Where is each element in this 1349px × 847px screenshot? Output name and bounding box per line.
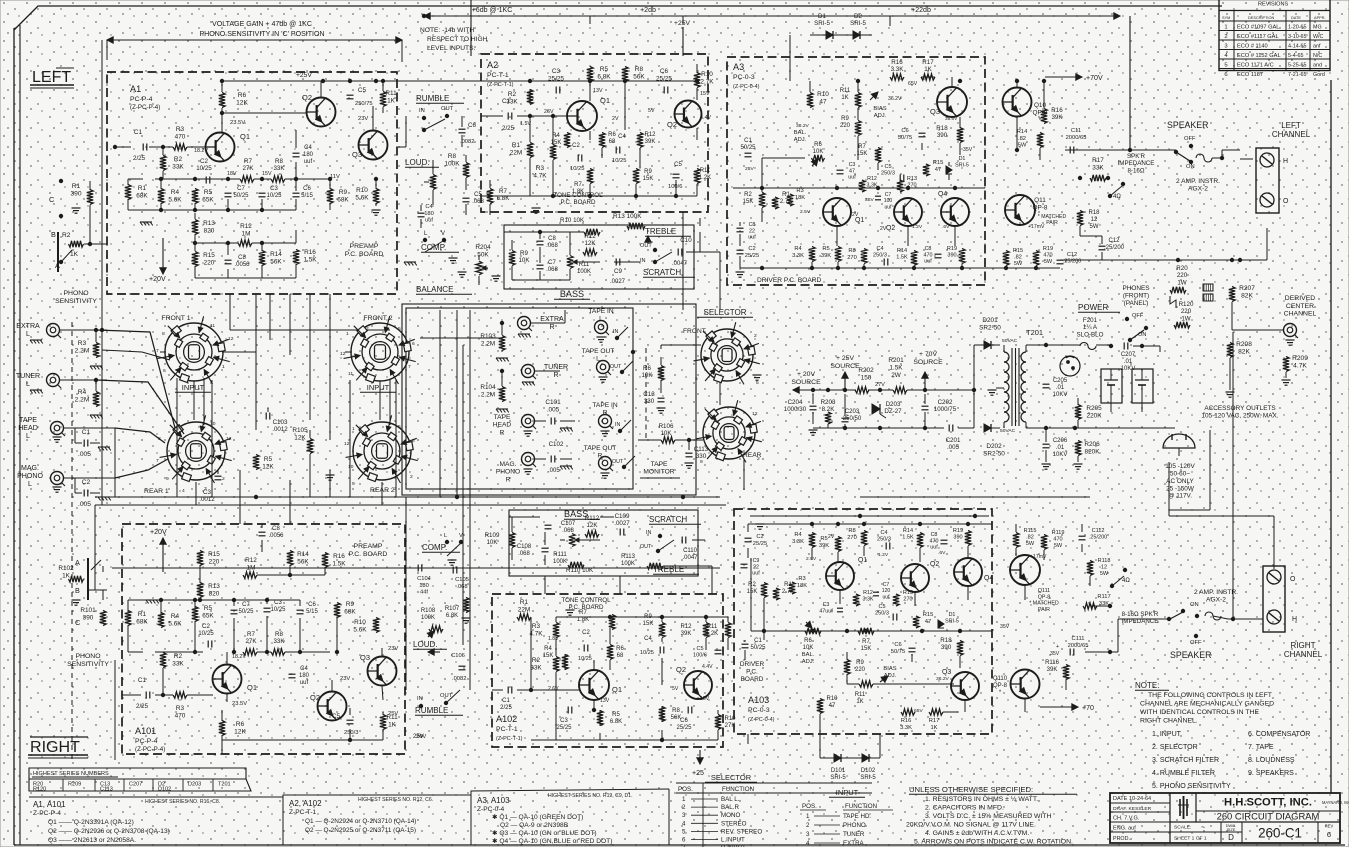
svg-text:PC-P-4: PC-P-4 [130,96,153,103]
svg-text:(Z-PC-0-4): (Z-PC-0-4) [733,84,760,90]
resistor R14 56K (A1) [259,251,265,266]
svg-text:D101SRI-5: D101SRI-5 [830,768,846,781]
transistor Q2 (A102) [684,671,712,699]
resistor R6 12K (A1) [219,93,225,108]
resistor R12 1M (A101) [243,572,257,578]
svg-text:~: ~ [1201,823,1206,832]
svg-text:27V: 27V [875,382,885,388]
svg-text:MONO: MONO [721,812,740,819]
svg-text:R163.3K: R163.3K [900,718,912,731]
svg-text:5: 5 [398,326,401,332]
svg-text:2.5V: 2.5V [800,209,811,215]
svg-text:BASS: BASS [560,289,584,299]
svg-text:D203: D203 [188,782,201,788]
svg-text:N/C: N/C [1313,53,1322,59]
svg-text:RUMBLE: RUMBLE [416,94,449,103]
transistor Q11 (A3) [1005,195,1035,225]
svg-text:7-21-65: 7-21-65 [1288,72,1306,78]
capacitor C7 50/25 (A1) [225,192,232,194]
svg-text:C1: C1 [138,677,147,684]
FRONT 1 input wafer [158,316,230,384]
svg-text:Q2: Q2 [886,225,895,232]
svg-text:PROD.: PROD. [1113,836,1130,842]
svg-text:SCRATCH: SCRATCH [649,515,687,524]
wire top bus drop at 471 [470,0,472,56]
svg-text:R610K: R610K [803,638,814,651]
wire right channel vert [1273,632,1275,640]
svg-text:A101: A101 [135,726,156,736]
wire left col vertical 2 [95,323,97,330]
svg-text:R8270: R8270 [847,528,857,541]
svg-text:3: 3 [806,831,810,838]
svg-text:INPUT: INPUT [182,383,205,392]
pot R108 100K (right) [429,626,443,632]
resistor R11 1.2K (A2) [694,169,700,184]
resistor R15 220 (A1) [192,252,198,267]
svg-text:18V: 18V [227,171,237,177]
svg-text:R1390: R1390 [70,183,81,198]
svg-text:C1: C1 [134,129,143,136]
svg-text:4. RUMBLE FILTER: 4. RUMBLE FILTER [1152,770,1215,777]
wire top bus right drop [1129,16,1131,150]
svg-text:APPR.: APPR. [1314,16,1326,20]
svg-text:10: 10 [210,421,216,427]
capacitor C2 10/25 (A2) [577,155,579,162]
svg-text:6: 6 [1327,830,1331,839]
svg-text:1: 1 [222,364,225,370]
svg-text:.0027: .0027 [610,279,626,285]
svg-text:R215K: R215K [743,192,754,205]
svg-text:UNLESS OTHERWISE SPECIFIED:: UNLESS OTHERWISE SPECIFIED: [909,785,1033,794]
svg-text:2/25: 2/25 [136,703,149,710]
wire phono sens to A1 [84,243,107,245]
svg-text:4Ω: 4Ω [1113,194,1121,200]
resistor R12 39K (A2) [637,133,643,148]
wire balance to bass [478,285,480,310]
capacitor C113 330 (sel) [686,452,693,454]
svg-text:R915K: R915K [643,169,654,182]
wire bus y497 [95,496,720,498]
resistor R8 56K (A2) [622,67,628,82]
svg-text:Q2 —— Q-2N2926 or Q-2N3708 (QA: Q2 —— Q-2N2926 or Q-2N3708 (QA-13) [48,828,170,835]
svg-text:ECO #1117 GAL: ECO #1117 GAL [1237,34,1279,40]
svg-text:R415K: R415K [551,133,562,146]
terminal block left channel [1256,148,1279,213]
svg-text:R1239K: R1239K [645,132,657,145]
transistor Q2 (A2) [675,101,702,128]
svg-text:ON: ON [1190,602,1199,608]
wire tapehead-l [64,427,115,429]
A1 wire q2 collector [320,81,322,98]
svg-text:REAR 1: REAR 1 [144,488,169,495]
resistor R5 65K (A1) [192,189,198,204]
svg-text:DRAF. KESSLER: DRAF. KESSLER [1113,806,1152,812]
capacitor C110 .0047 (scrR) [681,537,683,544]
svg-text:+20V: +20V [149,276,166,283]
svg-text:FRONT: FRONT [683,328,706,335]
jack TAPE HEAD L [51,422,64,435]
A3 wires mid [761,158,763,192]
capacitor C105 .068 [452,567,454,574]
A101 wire row mid2 [199,565,201,583]
svg-text:1-20-65: 1-20-65 [1288,25,1306,31]
svg-text:TREBLE: TREBLE [645,227,676,236]
capacitor C4 180uuf (comp) [418,212,425,214]
svg-text:ECO # 1140: ECO # 1140 [1237,44,1268,50]
transistor Q1 (A101) [213,665,242,694]
svg-text:R141.5K: R141.5K [902,528,914,541]
svg-text:15V: 15V [262,171,272,177]
bass box to A102 verticals [544,576,546,594]
svg-text:23V: 23V [358,116,368,122]
svg-text:C4: C4 [644,636,652,642]
svg-text:R3470: R3470 [175,126,186,140]
A2 board dashed box [481,54,708,212]
svg-text:MG: MG [1313,25,1322,31]
capacitor C10 .0047 (treble) [677,249,679,256]
svg-text:BAL L.: BAL L. [721,796,740,803]
svg-text:C201.005: C201.005 [946,437,961,451]
capacitor C3 10/25 (A1) [259,192,266,194]
svg-text:R1456K: R1456K [297,551,309,565]
bass filter box (right) [509,510,698,576]
svg-text:.005: .005 [78,451,91,458]
ground A101 [146,600,159,603]
voltage gain bracket [107,39,402,41]
svg-text:(Z-PC-T-1): (Z-PC-T-1) [496,736,523,742]
svg-text:12: 12 [226,436,232,442]
svg-text:(Z-PC-P-4): (Z-PC-P-4) [135,746,165,753]
jack EXTRA R [518,317,531,330]
svg-text:C101.005: C101.005 [545,399,561,413]
svg-text:C203250/50: C203250/50 [843,409,862,422]
svg-text:R120: R120 [33,787,46,793]
hatch connector 1 [1203,284,1213,291]
capacitor C2 10/25 (A1) [205,177,207,184]
resistor R11 1K (A101) [380,715,386,730]
svg-text:PREAMPP.C. BOARD: PREAMPP.C. BOARD [345,243,384,258]
top bus wire [424,15,1120,17]
svg-text:13V: 13V [600,698,610,704]
REAR 2 input wafer [346,415,418,483]
A101 board dashed box [122,524,405,754]
jack TAPE IN R [599,415,612,428]
selector REAR wafer [696,400,762,462]
resistor R6 68 (A2) [599,133,605,148]
ground rear2 [326,475,335,480]
svg-text:18.2V: 18.2V [194,148,208,154]
loudness pot [430,175,436,190]
resistor R10 27K (A102) [715,715,721,730]
svg-text:IN: IN [419,108,425,114]
svg-text:R205220K: R205220K [1086,405,1102,419]
transistor Q10 (A3) [1003,88,1032,117]
ac plug [1163,434,1195,448]
resistor R10 2.7K (A2) [694,73,700,88]
svg-text:3: 3 [682,812,686,819]
capacitor C6 .0082 (rumble) [459,128,466,130]
svg-text:2V: 2V [612,116,619,122]
svg-text:OUT: OUT [610,364,622,370]
svg-text:ACCESSORY OUTLETS105-120 VAC,: ACCESSORY OUTLETS105-120 VAC, 250W. MAX. [1201,405,1278,419]
svg-text:36.2V: 36.2V [888,96,902,102]
svg-text:PC-P-4: PC-P-4 [135,738,158,745]
svg-text:C5: C5 [332,713,341,720]
svg-text:12: 12 [752,411,758,417]
svg-text:R2094.7K: R2094.7K [1292,355,1308,370]
A102 wires [492,689,503,691]
svg-text:260 CIRCUIT DIAGRAM: 260 CIRCUIT DIAGRAM [1217,811,1320,822]
svg-text:HIGHEST SERIES NUMBERS: HIGHEST SERIES NUMBERS [33,771,109,777]
svg-text:R13820: R13820 [208,583,220,597]
wire +25V drop to A2 [682,27,684,56]
svg-text:COMP.: COMP. [422,543,447,552]
jack MAG PHONO R [522,453,535,466]
svg-text:R18390: R18390 [936,125,948,139]
svg-text:✱ Q4 — QA-10 (GN,BLUE or RED: ✱ Q4 — QA-10 (GN,BLUE or RED DOT) [492,837,612,845]
A101 wire q1 [226,652,228,664]
resistor R7 1.8K (A2) [587,169,593,184]
A102 board dashed box [492,594,723,747]
svg-text:R161.5K: R161.5K [332,553,346,567]
sheet border left double line [13,28,15,845]
svg-text:R163.3K: R163.3K [891,59,905,73]
A1 mid hwire [128,178,143,180]
svg-text:8: 8 [412,438,415,444]
svg-text:3. SCRATCH FILTER: 3. SCRATCH FILTER [1152,757,1219,764]
REAR 1 input wafer [160,415,232,483]
svg-text:Q1 — Q-2N2924 or Q-2N3710 (QA-: Q1 — Q-2N2924 or Q-2N3710 (QA-14) [305,818,416,825]
svg-text:Q2: Q2 [310,693,320,702]
tape gang dashed link [645,348,647,441]
svg-text:BAL.R: BAL.R [721,804,739,811]
svg-text:R13 100K: R13 100K [613,213,642,220]
wire left col vertical 1 [101,40,103,330]
resistor R10 5.6K (A1) [373,189,379,204]
hatch connector 2 [1203,294,1213,301]
svg-text:9. SPEAKERS: 9. SPEAKERS [1248,770,1294,777]
svg-text:C105.068: C105.068 [455,577,469,590]
svg-text:5-25-65: 5-25-65 [1288,63,1306,69]
svg-text:FUNCTION: FUNCTION [845,803,877,810]
svg-text:SHEET 1 OF 1: SHEET 1 OF 1 [1174,836,1207,842]
wire mid horizontals [230,329,390,331]
capacitor C4 10/25 (A2) [615,147,617,154]
jack EXTRA L [47,324,60,337]
svg-text:C10: C10 [680,237,692,244]
svg-text:EXTRA: EXTRA [843,840,865,847]
svg-text:PHONES(FRONT)(PANEL): PHONES(FRONT)(PANEL) [1122,285,1149,307]
svg-text:+22db: +22db [911,7,931,14]
svg-text:R1456K: R1456K [270,251,282,265]
svg-text:R194705W: R194705W [1043,246,1053,265]
resistor R2 33K (A1) [160,156,166,171]
svg-text:RESPECT TO HIGH: RESPECT TO HIGH [427,36,488,43]
svg-text:IN: IN [613,329,618,335]
svg-text:+6db @ 1KC: +6db @ 1KC [472,7,513,14]
sheet border right line [1330,80,1332,793]
svg-text:2. SELECTOR: 2. SELECTOR [1152,744,1198,751]
wafer drop wires [176,381,178,497]
svg-text:R1733K: R1733K [1092,157,1104,171]
capacitor C6 5/15 (A101) [297,609,304,611]
svg-text:DATE 10-24-64: DATE 10-24-64 [1113,796,1151,802]
transistor Q110 (A103) [1011,670,1040,699]
electrolytic can 1 [1101,369,1122,403]
svg-text:and: and [1313,63,1322,69]
capacitor C1 .005 [83,440,85,447]
transistor Q1 (A103) [826,562,854,590]
svg-text:O: O [1290,576,1296,583]
resistor R16 1.5K (A101) [322,553,328,568]
svg-text:5: 5 [398,424,401,430]
resistor R3 2.2M [93,343,99,358]
svg-text:.0082: .0082 [452,676,466,682]
svg-text:35V: 35V [963,147,973,153]
svg-text:R2: R2 [62,232,71,239]
wire A2 out right [704,81,727,95]
capacitor C4 180uuf (A101) [289,673,296,675]
capacitor C3 10/25 (A101) [264,607,271,609]
svg-text:Z-PC-0-4: Z-PC-0-4 [477,806,505,813]
svg-text:38.2V: 38.2V [796,123,810,129]
svg-text:ECO 1187: ECO 1187 [1237,72,1263,78]
capacitor C2 10/25 (A101) [207,641,209,648]
+20V arrow (A1) [162,238,164,274]
svg-text:H.H.SCOTT, INC.: H.H.SCOTT, INC. [1224,797,1312,809]
svg-text:+20V: +20V [150,529,167,536]
svg-text:R19390: R19390 [953,528,963,541]
svg-text:R715K: R715K [861,639,872,652]
svg-text:WITH IDENTICAL CONTROLS IN THE: WITH IDENTICAL CONTROLS IN THE [1140,709,1259,716]
capacitor C7 .068 (bass) [537,264,544,266]
svg-text:10/25: 10/25 [578,656,592,662]
svg-text:R141.5K: R141.5K [896,248,908,261]
svg-text:PC-T-1: PC-T-1 [487,72,509,79]
svg-text:R1639K: R1639K [1051,107,1063,121]
svg-text:2: 2 [754,333,757,339]
capacitor C1 2/25 (A2) [507,113,509,120]
wire right-of-wafers verticals [439,310,441,497]
selector FRONT wafer [694,322,760,384]
wafer web wires [193,381,195,420]
svg-text:C5: C5 [358,87,367,94]
svg-text:R15.825W: R15.825W [1013,248,1023,267]
transistor Q4 (A103) [954,558,982,586]
svg-text:BIASADJ.: BIASADJ. [873,106,886,119]
ground A2 [532,208,541,213]
wire rumble col [423,130,425,160]
svg-text:ENG. auf: ENG. auf [1113,826,1136,832]
svg-text:SYM: SYM [1222,16,1230,20]
wire speaker bus down [1129,150,1131,260]
svg-text:C: C [49,195,54,204]
voltage selector plug [1060,356,1080,376]
svg-text:NOTE:: NOTE: [1135,681,1160,690]
svg-text:6: 6 [682,837,686,844]
resistor R1 68K (A1) [125,185,131,200]
tape area box [406,308,633,489]
wire bus y505 [95,504,726,506]
capacitor C6 5/15 (A1) [293,192,300,194]
svg-text:NOTE: -14b WITH: NOTE: -14b WITH [420,27,474,34]
svg-text:A3: A3 [733,62,744,72]
capacitor C5 100/6 (A2) [673,173,680,175]
svg-text:1.8V: 1.8V [548,636,559,642]
svg-text:C207: C207 [129,782,142,788]
svg-text:1K: 1K [70,251,79,258]
svg-text:C13330: C13330 [643,391,655,405]
svg-text:R668: R668 [608,132,616,145]
svg-text:Z-PC-T-1: Z-PC-T-1 [289,809,317,816]
svg-text:15V: 15V [700,91,710,97]
resistor R104 2.2M (tape) [499,387,505,402]
svg-text:C106: C106 [451,653,465,659]
capacitor C102 .005 [550,456,552,463]
svg-text:LOUD.: LOUD. [413,640,438,649]
svg-text:R610K: R610K [813,142,824,155]
svg-text:8. LOUDNESS: 8. LOUDNESS [1248,757,1295,764]
resistor R14 56K (A101) [287,551,293,566]
svg-text:Q2 — QA-9 or 2N398B: Q2 — QA-9 or 2N398B [500,822,569,829]
wire verticals mid [229,294,231,330]
A101 wire mid [127,625,129,652]
jack TUNER L [47,374,60,387]
svg-text:D: D [1228,833,1234,842]
svg-text:B: B [75,586,80,595]
svg-text:R415K: R415K [543,646,554,659]
svg-text:7: 7 [156,348,159,354]
svg-text:T201: T201 [1026,328,1043,337]
wire speaker line [1078,149,1176,151]
svg-text:R123.3K: R123.3K [863,590,874,602]
svg-text:✱ Q1 — QA-10 (GREEN DOT): ✱ Q1 — QA-10 (GREEN DOT) [492,813,583,821]
jack TAPE OUT R [599,457,612,470]
A103 board dashed box [734,509,992,734]
svg-text:C103.0012: C103.0012 [272,419,288,433]
resistor R11 1K (A103) [859,681,873,687]
pot R111 100K (bassR) [569,534,575,547]
svg-text:IN: IN [417,696,423,702]
power wires 2 [1026,344,1062,346]
lower R102b 1K [69,576,84,582]
svg-text:C102: C102 [549,441,564,448]
resistor R11 1K (A1) [380,92,386,107]
svg-text:9: 9 [352,481,355,487]
svg-text:R3470: R3470 [175,705,186,719]
A1 wire row4 [194,213,196,219]
resistor R7 27K (A101) [243,649,257,655]
derived center jack [1284,324,1297,337]
svg-text:LOUD.: LOUD. [405,158,430,167]
svg-text:65V: 65V [914,708,923,714]
svg-text:H: H [1292,616,1297,623]
resistor R1 22M (A2) [527,143,533,158]
svg-text:R13270: R13270 [903,590,913,603]
svg-text:C2: C2 [82,479,91,486]
svg-text:R11100K: R11100K [577,262,591,275]
transformer T201 [1004,352,1009,362]
wire verticals mid2 [239,470,241,524]
svg-text:15V: 15V [700,696,710,702]
svg-text:C1: C1 [502,98,510,105]
resistor R5 65K (A101) [192,607,198,622]
svg-text:12: 12 [344,441,350,447]
svg-text:Q2: Q2 [302,93,312,102]
svg-text:R206820K: R206820K [1084,441,1100,455]
svg-text:SPEAKER: SPEAKER [1170,650,1211,660]
wire +70 bus [973,310,975,345]
